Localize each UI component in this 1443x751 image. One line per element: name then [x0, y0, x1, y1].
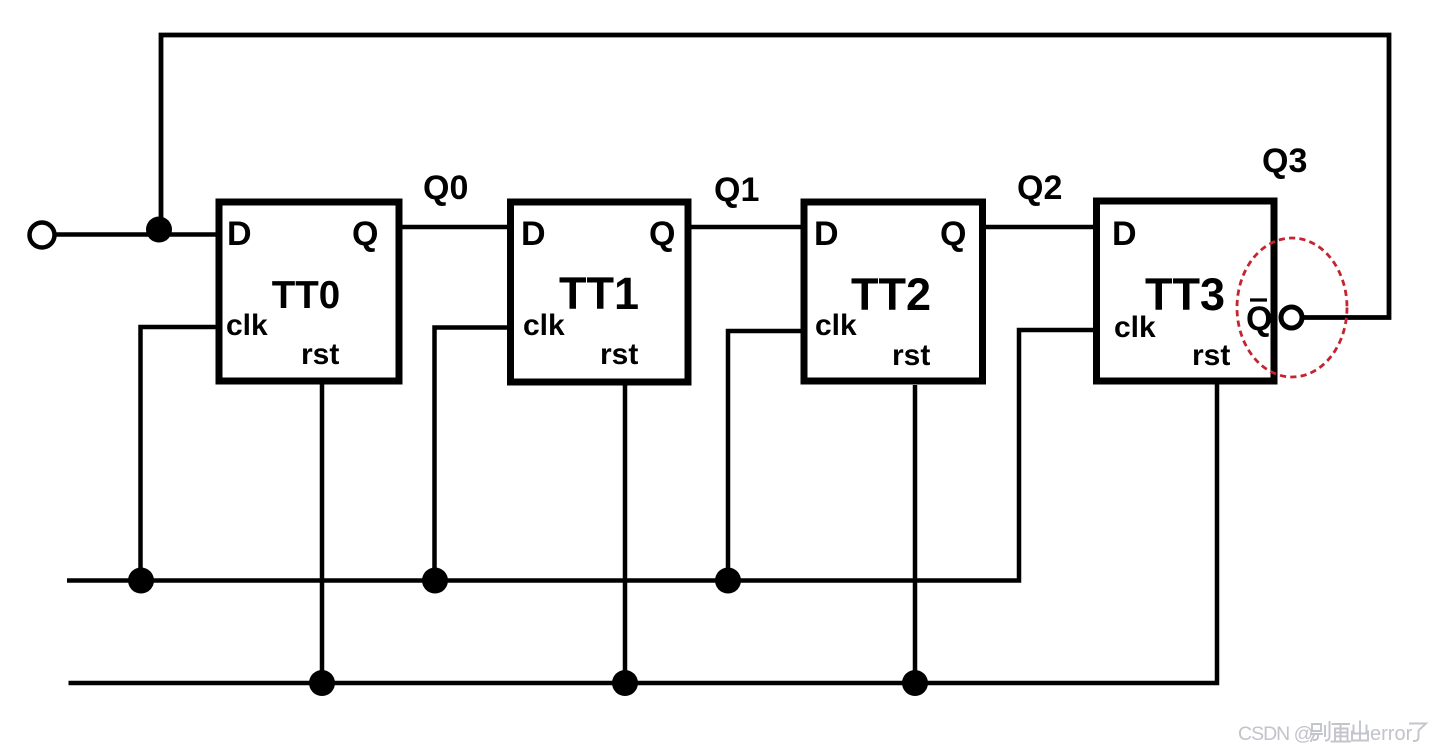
svg-text:error: error: [1370, 723, 1413, 745]
junction rst-TT1: [612, 670, 638, 696]
wire Q0: TT0.Q to TT1.D: [399, 225, 512, 230]
svg-text:Q: Q: [649, 215, 675, 253]
watermark glyph zai: [1332, 724, 1351, 742]
svg-text:Q0: Q0: [423, 169, 468, 207]
bubble on Qbar output: [1281, 307, 1302, 328]
watermark glyph le: [1410, 724, 1426, 742]
svg-text:CSDN @: CSDN @: [1238, 723, 1313, 745]
svg-text:TT3: TT3: [1145, 269, 1225, 320]
svg-text:D: D: [814, 215, 839, 253]
junction rst-TT2: [902, 670, 928, 696]
flip-flop TT3 box: [1097, 201, 1275, 381]
watermark glyph chu: [1352, 722, 1368, 741]
svg-text:clk: clk: [523, 309, 565, 342]
svg-text:clk: clk: [815, 309, 857, 342]
svg-text:clk: clk: [1114, 311, 1156, 344]
input terminal: [30, 223, 55, 248]
svg-text:TT2: TT2: [851, 269, 931, 320]
svg-text:rst: rst: [600, 338, 638, 371]
node input junction: [146, 217, 172, 243]
svg-text:rst: rst: [892, 339, 930, 372]
wire clk of TT2 down to clk rail: [728, 331, 806, 581]
wire rst of TT1 down to rst rail: [623, 385, 628, 683]
wire input to node: [55, 232, 217, 237]
clk rail with riser to TT3 clk: [67, 330, 1098, 581]
junction clk-TT2: [715, 568, 741, 594]
highlight ellipse (red dashed) around Qbar output: [1237, 238, 1347, 377]
junction rst-TT0: [309, 670, 335, 696]
junction clk-TT1: [422, 568, 448, 594]
svg-text:TT0: TT0: [272, 274, 340, 317]
flip-flop TT1 box: [511, 202, 689, 382]
svg-text:Q2: Q2: [1017, 169, 1062, 207]
flip-flop TT2 box: [804, 202, 983, 381]
svg-text:Q: Q: [352, 215, 378, 253]
svg-text:Q3: Q3: [1262, 142, 1307, 180]
watermark glyph bie: [1311, 722, 1330, 741]
svg-text:Q: Q: [1246, 300, 1272, 338]
flip-flop TT0 box: [219, 202, 399, 381]
overbar of Qbar: [1250, 298, 1267, 301]
wire rst of TT0 down to rst rail: [320, 384, 325, 683]
rst rail with riser to TT3 rst: [69, 384, 1218, 683]
svg-text:rst: rst: [1192, 339, 1230, 372]
svg-text:TT1: TT1: [559, 268, 639, 319]
svg-text:D: D: [1112, 215, 1137, 253]
wire rst of TT2 down to rst rail: [913, 385, 918, 683]
wire clk of TT1 down to clk rail: [435, 328, 513, 582]
svg-text:D: D: [521, 215, 546, 253]
svg-text:D: D: [227, 215, 252, 253]
junction clk-TT0: [128, 568, 154, 594]
wire Q2: TT2.Q to TT3.D: [982, 225, 1098, 230]
svg-text:Q1: Q1: [714, 171, 759, 209]
wire clk of TT0 down to clk rail: [141, 327, 220, 581]
wire feedback loop: [161, 35, 1389, 318]
svg-text:rst: rst: [301, 338, 339, 371]
svg-text:Q: Q: [940, 215, 966, 253]
svg-text:clk: clk: [226, 309, 268, 342]
wire Q1: TT1.Q to TT2.D: [688, 225, 806, 230]
